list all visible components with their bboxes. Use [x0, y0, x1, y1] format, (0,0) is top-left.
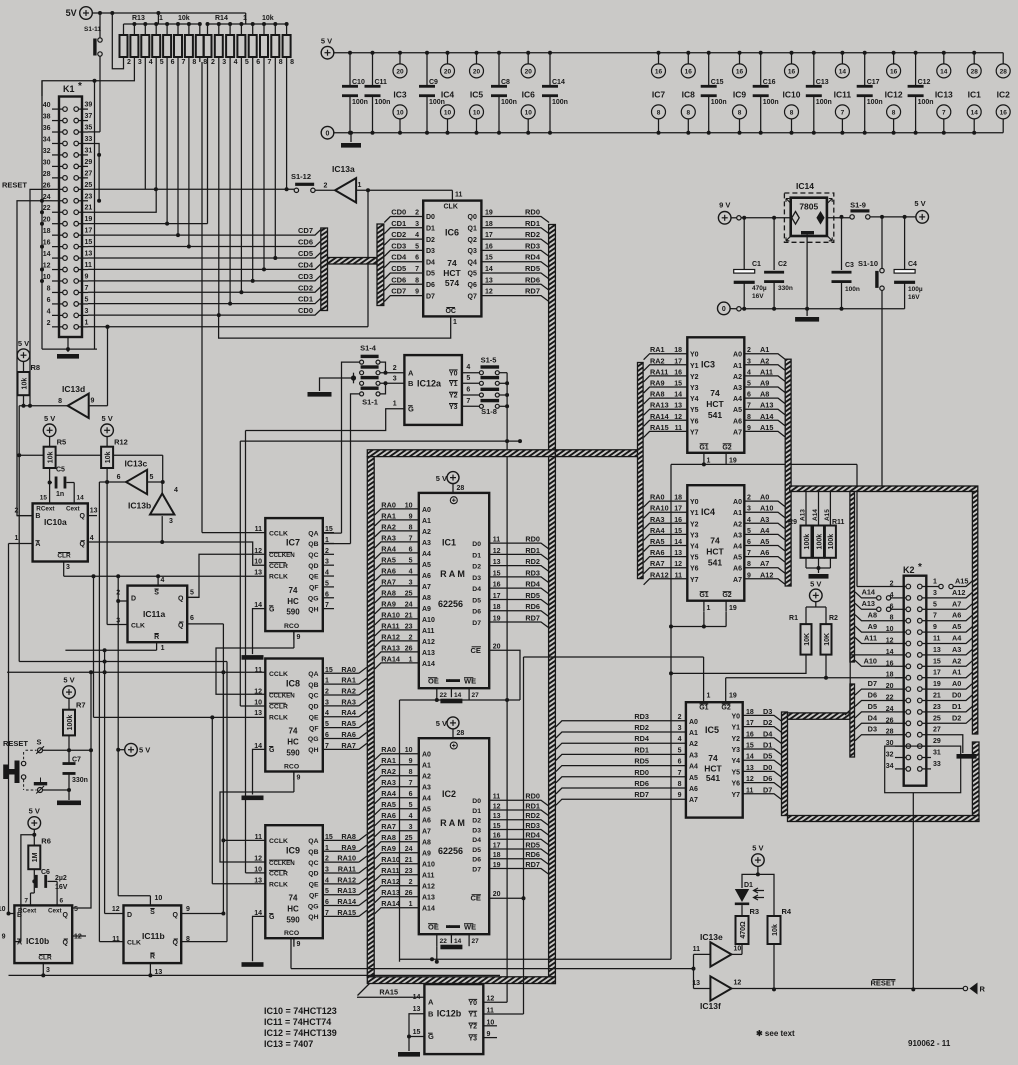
svg-text:A7: A7: [422, 584, 431, 591]
wire R6 to IC10b RCext: [30, 893, 32, 905]
svg-text:RA13: RA13: [381, 643, 400, 652]
svg-text:100n: 100n: [918, 99, 934, 106]
svg-text:RD4: RD4: [525, 831, 541, 840]
svg-text:D7: D7: [763, 785, 772, 794]
wire IC2 A9 address RA9: [375, 853, 419, 859]
svg-text:6: 6: [747, 392, 751, 399]
svg-text:5 V: 5 V: [914, 199, 925, 208]
svg-text:24: 24: [405, 601, 413, 608]
wire CD3 from K1 pin 9: [88, 275, 321, 281]
svg-text:A10: A10: [864, 656, 877, 665]
svg-text:Cext: Cext: [48, 908, 63, 915]
svg-text:12: 12: [746, 776, 754, 783]
svg-text:IC3: IC3: [701, 360, 715, 370]
svg-text:RD5: RD5: [525, 840, 540, 849]
svg-text:B: B: [408, 379, 414, 388]
svg-text:18: 18: [674, 347, 682, 354]
resistor R13-4 pulldown vertical: [155, 62, 157, 189]
svg-text:IC4: IC4: [441, 90, 455, 100]
power terminal 5V (rail): [321, 46, 334, 59]
svg-text:D4: D4: [472, 586, 481, 593]
svg-text:9: 9: [747, 425, 751, 432]
svg-text:13: 13: [674, 550, 682, 557]
svg-text:Y2: Y2: [469, 1024, 478, 1031]
svg-text:0: 0: [722, 306, 726, 313]
wire IC5 output D0: [743, 771, 782, 777]
svg-text:RA0: RA0: [341, 665, 356, 674]
wire IC9 RA11 to RA bus: [359, 867, 367, 873]
svg-text:RD4: RD4: [634, 734, 650, 743]
supply pins IC9: [738, 51, 742, 55]
svg-text:8: 8: [738, 109, 742, 116]
svg-text:4: 4: [149, 59, 153, 66]
wire regulator ground tab: [806, 234, 808, 308]
svg-text:R: R: [154, 634, 159, 641]
svg-text:A0: A0: [422, 507, 431, 514]
wire IC1 A0 address RA0: [375, 509, 419, 515]
wire IC8 RA4 to RA bus: [359, 711, 367, 717]
wire IC4 output A10: [744, 512, 785, 518]
svg-text:9: 9: [85, 274, 89, 281]
svg-text:Y5: Y5: [690, 407, 699, 414]
wire IC8 CCLR from CE net: [240, 705, 265, 707]
wire IC13b input from Q-bar net: [161, 516, 163, 542]
wire IC11a Q to IC7 CCLKEN: [187, 596, 199, 598]
capacitor C5 1n: [49, 468, 51, 483]
svg-text:IC11: IC11: [834, 90, 852, 100]
svg-text:R5: R5: [57, 438, 67, 447]
svg-text:74: 74: [710, 388, 720, 398]
wire IC6 D6 input CD6: [384, 284, 423, 290]
svg-text:QH: QH: [308, 747, 318, 754]
wire IC3 output A15: [744, 431, 785, 437]
svg-text:QC: QC: [308, 552, 318, 559]
svg-text:D3: D3: [472, 827, 481, 834]
wire IC1 A9 address RA9: [375, 608, 419, 614]
svg-text:7: 7: [841, 109, 845, 116]
svg-text:A5: A5: [952, 622, 961, 631]
svg-text:C3: C3: [845, 262, 854, 269]
svg-text:18: 18: [746, 709, 754, 716]
svg-text:A2: A2: [733, 374, 742, 381]
svg-text:5 V: 5 V: [810, 580, 821, 589]
svg-text:3: 3: [393, 376, 397, 383]
wire K2 A2: [931, 660, 973, 666]
svg-text:4: 4: [47, 308, 51, 315]
wire K1 pin28 to IC13d output: [30, 189, 52, 405]
wire IC6 Q4 output RD4: [481, 262, 549, 268]
svg-text:RCO: RCO: [284, 764, 299, 771]
svg-text:IC8: IC8: [682, 90, 696, 100]
svg-text:Y1: Y1: [690, 510, 699, 517]
capacitor C8 100n: [497, 51, 501, 55]
svg-text:2: 2: [747, 495, 751, 502]
wire IC3 input RA1: [644, 354, 688, 360]
svg-text:RD2: RD2: [525, 230, 540, 239]
svg-text:7: 7: [24, 898, 28, 905]
svg-text:D7: D7: [472, 866, 481, 873]
svg-text:10: 10: [43, 274, 51, 281]
wire CD5 from K1 pin 13: [88, 252, 321, 258]
wire K1 pin33 to pins 31,23: [88, 144, 99, 201]
svg-text:19: 19: [729, 605, 737, 612]
svg-text:HCT: HCT: [706, 547, 724, 557]
svg-text:B: B: [35, 513, 40, 520]
wire IC6 Q6 output RD6: [481, 284, 549, 290]
svg-text:9: 9: [409, 758, 413, 765]
svg-text:RD4: RD4: [525, 253, 541, 262]
wire IC2 A4 address RA4: [375, 798, 419, 804]
svg-text:A12: A12: [422, 884, 435, 891]
svg-text:29: 29: [933, 738, 941, 745]
svg-text:6: 6: [747, 539, 751, 546]
svg-text:15: 15: [413, 1029, 421, 1036]
svg-text:Cext: Cext: [66, 505, 81, 512]
wire IC9 RA14 to RA bus: [359, 900, 367, 906]
svg-text:A0: A0: [689, 719, 698, 726]
svg-text:A0: A0: [952, 679, 961, 688]
wire 5V rail corner into R14 rail: [245, 13, 247, 24]
resistors R1 R2 10K: [810, 589, 823, 602]
svg-text:A5: A5: [733, 407, 742, 414]
svg-text:9 V: 9 V: [719, 201, 730, 210]
svg-text:910062 - 11: 910062 - 11: [908, 1039, 951, 1048]
wire IC12a G pin1 to counters: [246, 409, 405, 431]
IC IC8 74HC590 counter: [265, 659, 323, 772]
svg-text:15: 15: [485, 255, 493, 262]
wire K2 A8: [855, 615, 895, 621]
wire R13 riser from 5V rail: [157, 13, 159, 24]
svg-text:HCT: HCT: [706, 399, 724, 409]
svg-text:4: 4: [234, 59, 238, 66]
svg-text:RD3: RD3: [525, 241, 540, 250]
ground IC12b: [398, 1052, 420, 1057]
svg-text:7: 7: [942, 109, 946, 116]
svg-text:C6: C6: [41, 869, 50, 876]
svg-text:100n: 100n: [816, 99, 832, 106]
wire IC3 input RA15: [644, 431, 688, 437]
svg-text:S1-9: S1-9: [850, 201, 866, 210]
svg-text:G1: G1: [699, 705, 708, 712]
svg-text:Y0: Y0: [690, 499, 699, 506]
svg-text:23: 23: [933, 704, 941, 711]
svg-text:RA5: RA5: [341, 719, 356, 728]
wire K2 D6 to D bus: [855, 701, 895, 707]
svg-text:39: 39: [85, 102, 93, 109]
svg-text:A13: A13: [422, 650, 435, 657]
svg-text:CD5: CD5: [298, 249, 313, 258]
svg-text:CLR: CLR: [57, 553, 71, 560]
svg-text:QA: QA: [308, 530, 318, 537]
wire IC6 D3 input CD3: [384, 250, 423, 256]
svg-text:A3: A3: [422, 785, 431, 792]
svg-text:R9: R9: [788, 519, 797, 526]
svg-text:7: 7: [268, 59, 272, 66]
svg-text:11: 11: [493, 537, 501, 544]
wire IC6 D7 input CD7: [384, 296, 423, 302]
svg-text:26: 26: [43, 182, 51, 189]
wire line 661 (IC13b net): [19, 661, 227, 663]
svg-text:14: 14: [43, 251, 51, 258]
svg-text:590: 590: [286, 748, 300, 757]
svg-text:20: 20: [43, 217, 51, 224]
wire IC4 output A0: [744, 501, 785, 507]
wire K1 pin26 RESET to IC10a B: [17, 201, 52, 516]
svg-text:IC6: IC6: [445, 228, 459, 238]
wire IC1 CE to select net: [489, 650, 520, 700]
svg-text:Q: Q: [178, 623, 184, 630]
svg-text:27: 27: [472, 938, 480, 945]
svg-text:590: 590: [286, 915, 300, 924]
svg-text:A3: A3: [422, 540, 431, 547]
svg-text:QA: QA: [308, 671, 318, 678]
svg-text:13: 13: [746, 765, 754, 772]
svg-text:Y3: Y3: [690, 532, 699, 539]
svg-text:100n: 100n: [501, 99, 517, 106]
svg-text:40: 40: [43, 102, 51, 109]
svg-text:A9: A9: [422, 851, 431, 858]
svg-text:S: S: [37, 738, 42, 747]
svg-text:541: 541: [708, 410, 722, 420]
resistor R4 10k: [758, 874, 774, 916]
wire vertical 19 down to trigger line: [18, 406, 20, 662]
svg-text:B: B: [428, 1009, 434, 1018]
svg-text:QH: QH: [308, 914, 318, 921]
svg-text:QD: QD: [308, 704, 318, 711]
svg-text:RA11: RA11: [381, 866, 399, 875]
svg-text:16: 16: [655, 68, 663, 75]
svg-text:5: 5: [678, 747, 682, 754]
power terminal 5V (top left): [80, 7, 93, 20]
capacitor C4 100u: [904, 217, 906, 270]
wire S1-4 row1 to IC7 QA: [342, 362, 360, 533]
svg-text:17: 17: [85, 228, 93, 235]
svg-text:QD: QD: [308, 871, 318, 878]
svg-text:RA13: RA13: [381, 888, 400, 897]
wire IC13e/f inputs from RCO9 net: [694, 953, 711, 955]
svg-text:24: 24: [43, 194, 51, 201]
svg-text:HC: HC: [287, 737, 299, 746]
wire IC5 input RD0: [556, 777, 686, 783]
svg-text:A: A: [428, 998, 434, 1007]
svg-text:CCLR: CCLR: [269, 704, 288, 711]
svg-text:D7: D7: [472, 620, 481, 627]
supply 5V IC2: [447, 717, 459, 729]
bus K2 frame top: [790, 486, 978, 492]
wire IC2 OE down to OE net: [436, 946, 438, 962]
wire trigger line to IC8 CCLK: [7, 671, 265, 673]
wire IC4 input RA3: [644, 523, 688, 529]
svg-text:9: 9: [297, 775, 301, 782]
svg-text:12: 12: [734, 980, 742, 987]
svg-text:Y7: Y7: [690, 429, 699, 436]
capacitor C17 100n: [863, 51, 867, 55]
svg-text:A12: A12: [760, 570, 773, 579]
wire 5V rail top-left: [92, 12, 245, 14]
svg-text:A4: A4: [760, 526, 770, 535]
svg-text:2: 2: [211, 59, 215, 66]
svg-text:RD0: RD0: [525, 208, 540, 217]
wire IC8 RA2 to RA bus: [359, 689, 367, 695]
svg-text:18: 18: [485, 221, 493, 228]
svg-text:100k: 100k: [67, 715, 74, 731]
svg-text:RA3: RA3: [650, 515, 665, 524]
wire C6 to IC10b Cext: [48, 880, 58, 882]
svg-text:28: 28: [43, 171, 51, 178]
svg-text:15: 15: [85, 239, 93, 246]
wire IC9 CCLK from trigger net: [222, 672, 224, 840]
svg-text:RD5: RD5: [525, 264, 540, 273]
wire IC5 input RD6: [556, 788, 686, 794]
resistor R6 1M with 5V: [28, 817, 41, 830]
svg-text:8: 8: [409, 524, 413, 531]
wire S1-4 rows2-3 to ground: [353, 373, 355, 384]
svg-text:10k: 10k: [105, 451, 112, 463]
svg-text:5: 5: [466, 375, 470, 382]
svg-text:D3: D3: [868, 725, 877, 734]
svg-text:A3: A3: [952, 645, 961, 654]
svg-text:Q: Q: [173, 940, 179, 947]
power terminal 9V: [718, 212, 731, 225]
svg-text:12: 12: [43, 263, 51, 270]
svg-text:IC10a: IC10a: [44, 517, 67, 527]
svg-text:31: 31: [85, 147, 93, 154]
svg-text:A1: A1: [952, 668, 961, 677]
svg-text:RA12: RA12: [337, 875, 356, 884]
wire IC1 D1 data RD1: [489, 554, 549, 560]
wire IC13a output down to K1 pin1 line: [367, 190, 369, 326]
wire IC6 OC pin1 to CD0 net: [219, 315, 451, 338]
capacitor C3 100n: [841, 217, 843, 270]
svg-text:RD0: RD0: [634, 768, 649, 777]
wire IC6 Q7 output RD7: [481, 296, 549, 302]
svg-text:12: 12: [674, 414, 682, 421]
bus D link to K2: [782, 712, 788, 816]
svg-text:IC12b: IC12b: [437, 1008, 462, 1018]
capacitor C15 100n: [707, 51, 711, 55]
wire IC1 A10 address RA10: [375, 619, 419, 625]
svg-text:S1-5: S1-5: [481, 356, 497, 365]
svg-text:8: 8: [747, 414, 751, 421]
wire S1-4 to IC12a A pin2: [380, 362, 386, 373]
svg-text:62256: 62256: [438, 599, 463, 609]
svg-text:Y2: Y2: [449, 393, 458, 400]
wire IC6 D0 input CD0: [384, 217, 423, 223]
wire R6 branch to IC10b: [21, 835, 34, 942]
svg-text:A14: A14: [862, 587, 876, 596]
svg-text:D3: D3: [426, 248, 435, 255]
svg-text:RA10: RA10: [650, 504, 669, 513]
wire IC10b CLR stub: [42, 963, 44, 975]
svg-text:A12: A12: [422, 639, 435, 646]
wire IC5 output D7: [743, 794, 782, 800]
svg-text:17: 17: [746, 720, 754, 727]
svg-text:16: 16: [485, 243, 493, 250]
svg-text:A11: A11: [422, 628, 435, 635]
svg-text:13: 13: [85, 251, 93, 258]
svg-text:RD3: RD3: [525, 821, 540, 830]
svg-text:4: 4: [678, 736, 682, 743]
svg-text:16: 16: [685, 68, 693, 75]
svg-text:6: 6: [47, 297, 51, 304]
wire IC2 D1 data RD1: [489, 810, 549, 816]
svg-text:18: 18: [674, 495, 682, 502]
svg-text:32: 32: [43, 148, 51, 155]
svg-text:6: 6: [60, 898, 64, 905]
svg-text:16: 16: [493, 582, 501, 589]
svg-text:RA1: RA1: [341, 676, 356, 685]
svg-text:CD6: CD6: [298, 238, 313, 247]
svg-text:D5: D5: [763, 752, 772, 761]
svg-text:A3: A3: [733, 532, 742, 539]
wire R3 to IC13e output: [741, 944, 743, 954]
wire IC5 input RD5: [556, 766, 686, 772]
ground at S1-1: [308, 392, 332, 397]
bus RAM frame top: [367, 450, 555, 457]
svg-text:RCO: RCO: [284, 930, 299, 937]
svg-text:16: 16: [890, 68, 898, 75]
svg-text:3: 3: [169, 518, 173, 525]
svg-text:RA14: RA14: [337, 897, 357, 906]
svg-text:Y3: Y3: [469, 1035, 478, 1042]
wire K2 A4: [931, 638, 973, 644]
svg-text:10: 10: [405, 747, 413, 754]
svg-text:D7: D7: [868, 679, 877, 688]
svg-text:16: 16: [746, 731, 754, 738]
svg-text:100n: 100n: [845, 286, 860, 293]
svg-text:22: 22: [43, 205, 51, 212]
svg-text:17: 17: [674, 506, 682, 513]
svg-text:5: 5: [150, 474, 154, 481]
wire IC7 QA to S1-4: [323, 532, 342, 534]
svg-text:1: 1: [243, 15, 247, 22]
wire IC2 D0 data RD0: [489, 800, 549, 806]
svg-text:4: 4: [466, 364, 470, 371]
svg-text:1: 1: [707, 457, 711, 464]
svg-text:RA12: RA12: [381, 632, 400, 641]
svg-text:A11: A11: [760, 367, 773, 376]
svg-text:Q0: Q0: [468, 214, 477, 221]
svg-text:25: 25: [405, 590, 413, 597]
svg-text:3: 3: [415, 221, 419, 228]
svg-text:RA13: RA13: [650, 401, 669, 410]
wire K2 A14 with link circles: [877, 596, 881, 600]
svg-text:10k: 10k: [21, 378, 28, 390]
svg-text:29: 29: [85, 159, 93, 166]
svg-text:11: 11: [933, 636, 941, 643]
svg-text:7: 7: [415, 266, 419, 273]
wire CD2 from K1 pin 7: [88, 286, 321, 292]
svg-text:A9: A9: [760, 379, 769, 388]
wire R13 pin1 to 5V rail: [112, 13, 123, 69]
resistor R12 10k with 5V: [101, 424, 114, 437]
wire IC5 input RD4: [556, 743, 686, 749]
svg-text:7: 7: [85, 285, 89, 292]
bus RAM frame bottom: [367, 977, 555, 984]
svg-text:Q: Q: [79, 513, 85, 520]
capacitor C6 2u2: [33, 869, 35, 881]
svg-text:16: 16: [674, 517, 682, 524]
wire IC10b Q to trigger net: [72, 672, 91, 908]
svg-text:3: 3: [46, 967, 50, 974]
wire IC8 RA7 to RA bus: [359, 743, 367, 749]
svg-text:QB: QB: [308, 541, 318, 548]
svg-text:A7: A7: [422, 829, 431, 836]
svg-text:25: 25: [405, 835, 413, 842]
svg-text:RCLK: RCLK: [269, 882, 288, 889]
svg-text:C9: C9: [429, 79, 438, 86]
wire C5 to Cext pin14: [67, 482, 75, 484]
